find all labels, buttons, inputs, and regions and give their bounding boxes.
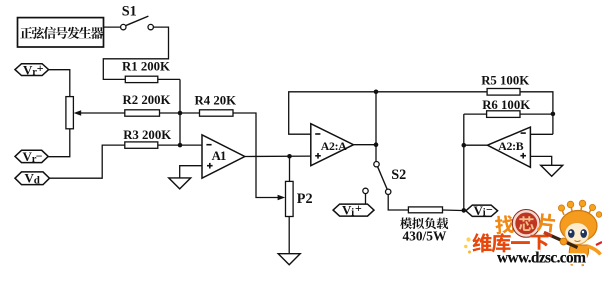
svg-text:430/5W: 430/5W xyxy=(402,228,447,243)
terminal Vi+ with test point xyxy=(333,188,374,218)
sine signal generator box xyxy=(18,18,104,47)
svg-text:A2:A: A2:A xyxy=(321,139,347,153)
wire: inverting bus xyxy=(179,79,181,145)
wire: R6/A2:B output/Vi- vertical xyxy=(463,114,465,210)
wire xyxy=(289,156,291,181)
op-amp A1 xyxy=(202,135,245,178)
svg-text:S1: S1 xyxy=(122,4,137,20)
ground (A2:B +) xyxy=(541,165,563,176)
svg-text:www.dzsc.com: www.dzsc.com xyxy=(497,250,586,267)
wire xyxy=(50,145,125,178)
svg-text:S2: S2 xyxy=(391,167,406,183)
svg-text:R3 200K: R3 200K xyxy=(123,128,171,142)
wire xyxy=(520,113,553,115)
terminal Vi- xyxy=(466,202,498,218)
resistor R1 200K xyxy=(122,59,170,82)
resistor R4 20K xyxy=(195,93,237,116)
svg-text:R4 20K: R4 20K xyxy=(195,93,237,107)
node: bus to A1 inverting input xyxy=(178,143,183,148)
svg-text:+: + xyxy=(355,201,362,215)
potentiometer P2 xyxy=(286,181,313,216)
svg-text:−: − xyxy=(36,149,43,163)
node: A2:B output xyxy=(462,143,467,148)
wire xyxy=(103,27,168,79)
svg-text:R6 100K: R6 100K xyxy=(482,98,530,112)
terminal Vr- xyxy=(15,149,48,165)
svg-text:+: + xyxy=(37,61,44,75)
svg-text:d: d xyxy=(34,174,40,186)
svg-text:−: − xyxy=(486,202,493,216)
wire: A1 output xyxy=(245,155,311,157)
svg-text:R1 200K: R1 200K xyxy=(122,59,170,73)
switch S1 xyxy=(121,4,154,30)
wire: wiper to R2 xyxy=(74,110,125,116)
resistor R3 200K xyxy=(123,128,171,148)
wire xyxy=(158,78,180,80)
wire xyxy=(160,112,200,114)
wire: A2:B inverting input xyxy=(530,133,553,135)
wire: A1 + input to ground xyxy=(180,166,202,178)
wire xyxy=(443,209,466,212)
op-amp A2:A xyxy=(311,124,354,166)
wire: R4 to P2 wiper xyxy=(233,113,285,200)
terminal Vd xyxy=(15,171,50,187)
wire xyxy=(464,113,487,115)
wire xyxy=(158,144,202,146)
svg-text:P2: P2 xyxy=(297,191,313,207)
svg-text:R2 200K: R2 200K xyxy=(123,93,171,107)
wire xyxy=(388,195,408,211)
svg-text:R5 100K: R5 100K xyxy=(481,73,529,87)
wire xyxy=(48,129,70,157)
wire xyxy=(104,26,121,28)
resistor R5 100K xyxy=(481,73,529,95)
node: R5/R6 junction xyxy=(551,112,556,117)
node: R2/R4 bus junction xyxy=(178,111,183,116)
wire: A2:B + to ground xyxy=(530,156,551,165)
wire: A2:A output xyxy=(354,144,377,146)
watermark logo xyxy=(464,200,602,266)
terminal Vr+ xyxy=(15,61,49,78)
node: A2:A output xyxy=(374,142,379,147)
resistor R6 100K xyxy=(482,98,530,118)
wire: A2:B output xyxy=(464,144,488,146)
ground (A1 +) xyxy=(169,178,191,189)
wire: A2:A feedback loop xyxy=(289,92,487,134)
resistor R2 200K xyxy=(123,93,171,116)
node: A1 output / P2 top xyxy=(287,154,292,159)
wire xyxy=(520,92,553,135)
potentiometer (input divider) xyxy=(66,97,74,129)
ground (P2) xyxy=(278,254,300,265)
wire xyxy=(288,217,290,254)
svg-text:A1: A1 xyxy=(212,149,226,163)
wire xyxy=(49,70,70,97)
wire xyxy=(375,92,377,162)
node: feedback / R5 xyxy=(374,90,379,95)
svg-text:i: i xyxy=(351,207,354,218)
svg-text:A2:B: A2:B xyxy=(498,139,523,153)
resistor RL: analog load 430/5W xyxy=(400,207,448,244)
op-amp A2:B (points left) xyxy=(487,127,530,167)
switch S2 xyxy=(374,162,406,195)
node: Vi- / load xyxy=(462,208,467,213)
